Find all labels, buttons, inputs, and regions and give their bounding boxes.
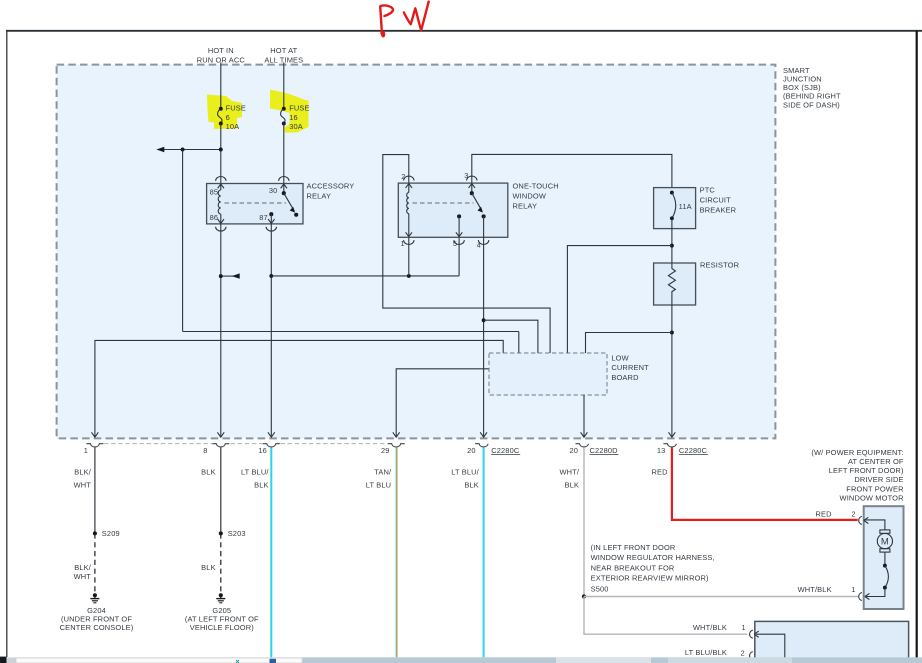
- SJB label: [783, 66, 841, 109]
- accessory relay pin 85 bump: [216, 176, 226, 180]
- wire accessory relay pin 86 down to exit 8: [220, 224, 222, 437]
- wire from pin 4 junction right to LCB stub c: [484, 320, 538, 353]
- wire exit 20 cyan LT BLU/BLK down off page: [483, 447, 485, 657]
- svg-text:WHT/BLK: WHT/BLK: [798, 585, 832, 594]
- wire from x183 right to low current board stub b: [183, 331, 519, 333]
- bump pin 16: [263, 444, 280, 447]
- exit arrow pin 29: [393, 432, 400, 437]
- wire from HOT IN RUN OR ACC to fuse 6: [220, 63, 222, 109]
- svg-text:10A: 10A: [226, 122, 240, 131]
- wire color label WHT/BLK at exit 20 C2280D: [559, 468, 579, 490]
- bump pin 29: [388, 444, 405, 447]
- harness location note and splice S500 label: [591, 543, 715, 594]
- wire from fuse 6 to accessory relay pin 85: [220, 124, 222, 184]
- exit arrow pin 16: [268, 432, 275, 437]
- svg-text:S203: S203: [228, 529, 246, 538]
- accessory relay pin 87 bump: [266, 227, 276, 231]
- svg-text:86: 86: [210, 213, 219, 222]
- wire color label LT BLU/BLK at exit 20 C2280C: [451, 468, 479, 490]
- svg-text:FUSE: FUSE: [226, 104, 246, 113]
- one-touch relay pin 5 contact: [456, 214, 462, 237]
- driver side front power window motor caption: [811, 448, 904, 503]
- wire stub with left arrow at node below fuse 6: [156, 147, 182, 152]
- wire color label TAN/LT BLU at exit 29: [366, 468, 392, 490]
- accessory relay pin 86 bump: [216, 227, 226, 231]
- wire door module pin 1 internal: [756, 634, 785, 660]
- one-touch relay pin 1 bump: [404, 240, 414, 244]
- page frame top border: [6, 30, 922, 32]
- svg-text:LT BLU/: LT BLU/: [451, 468, 479, 477]
- motor M symbol: [877, 530, 892, 552]
- fuse F6 10A: [218, 104, 246, 132]
- wire exit 1 down to splice S209: [94, 447, 96, 533]
- wire one-touch pin 3 up and right to PTC circuit breaker: [472, 154, 672, 192]
- svg-text:C2280C: C2280C: [491, 446, 520, 455]
- svg-text:S500: S500: [591, 585, 609, 594]
- junction dot below PTC at y245.6: [670, 244, 674, 248]
- taskbar strip at bottom: [0, 657, 922, 663]
- accessory relay switch blade: [284, 193, 294, 211]
- svg-text:BREAKER: BREAKER: [700, 205, 737, 214]
- svg-text:NEAR BREAKOUT FOR: NEAR BREAKOUT FOR: [591, 563, 675, 572]
- door module pin 2 connector arc: [750, 652, 753, 660]
- svg-text:2: 2: [401, 172, 405, 181]
- one-touch relay switch common pin 3: [469, 183, 475, 193]
- accessory relay pin 30 bump: [279, 176, 289, 180]
- door module pin 1 connector arrow: [754, 631, 759, 637]
- one-touch relay switch contact dot to pin 4: [482, 214, 486, 218]
- exit arrow pin 20 C2280C: [480, 432, 487, 437]
- svg-text:RELAY: RELAY: [513, 201, 538, 210]
- motor internal circuit breaker: [883, 564, 888, 590]
- svg-text:13: 13: [657, 446, 666, 455]
- low current board: [489, 353, 649, 395]
- one-touch relay pin 5 bump: [454, 240, 464, 244]
- svg-text:BOARD: BOARD: [611, 373, 639, 382]
- accessory relay switch common pin 30: [281, 184, 287, 194]
- page frame left border: [6, 31, 8, 657]
- junction dot on pin 4 wire at y320: [482, 318, 486, 322]
- splice S209: [93, 529, 120, 538]
- door module pin 1 connector arc: [750, 630, 753, 638]
- wire motor pin 2 to motor M: [865, 520, 885, 530]
- svg-text:SIDE OF DASH): SIDE OF DASH): [783, 100, 840, 109]
- junction dot at branch x183: [181, 148, 185, 152]
- svg-text:8: 8: [203, 446, 207, 455]
- wire contact dot down to pin 4: [483, 216, 485, 237]
- svg-text:RELAY: RELAY: [307, 192, 332, 201]
- svg-text:ACCESSORY: ACCESSORY: [307, 182, 355, 191]
- svg-text:CURRENT: CURRENT: [611, 363, 649, 372]
- door module box (bottom right): [755, 621, 909, 663]
- svg-text:BLK/: BLK/: [74, 468, 92, 477]
- svg-text:CENTER CONSOLE): CENTER CONSOLE): [60, 623, 134, 632]
- one-touch relay pin 2 bump: [404, 176, 414, 180]
- dashed wire S209 to ground G204: [94, 533, 96, 593]
- accessory relay coil: [218, 184, 224, 224]
- svg-text:WINDOW: WINDOW: [513, 192, 547, 201]
- bump pin 13 C2280C: [663, 444, 676, 447]
- wire one-touch pin 1 down to junction: [408, 237, 410, 276]
- node HOT IN RUN OR ACC: [197, 46, 246, 65]
- one-touch relay pin 4 bump: [478, 240, 488, 244]
- svg-text:FUSE: FUSE: [289, 104, 309, 113]
- svg-text:29: 29: [381, 446, 390, 455]
- svg-text:ONE-TOUCH: ONE-TOUCH: [513, 182, 559, 191]
- svg-text:BLK/: BLK/: [74, 563, 92, 572]
- svg-text:M: M: [881, 537, 889, 548]
- svg-text:1: 1: [851, 585, 855, 594]
- svg-text:20: 20: [570, 446, 579, 455]
- motor pin 2 connector arc: [859, 516, 862, 524]
- svg-text:EXTERIOR REARVIEW MIRROR): EXTERIOR REARVIEW MIRROR): [591, 574, 709, 583]
- svg-text:RED: RED: [816, 509, 833, 518]
- svg-text:16: 16: [289, 113, 298, 122]
- svg-text:CIRCUIT: CIRCUIT: [700, 196, 732, 205]
- svg-text:WHT: WHT: [74, 572, 92, 581]
- wire from fuse 16 to accessory relay pin 30: [283, 124, 285, 184]
- wire color label BLK/WHT above G204: [74, 563, 92, 581]
- svg-text:BLK: BLK: [201, 563, 216, 572]
- node HOT AT ALL TIMES: [264, 46, 303, 65]
- svg-text:DRIVER SIDE: DRIVER SIDE: [854, 475, 903, 484]
- window motor box: [864, 506, 904, 609]
- bump pin 8: [212, 444, 229, 447]
- svg-text:WHT/: WHT/: [559, 468, 579, 477]
- exit arrow pin 13 C2280C: [669, 432, 676, 437]
- junction dot on pin 87 wire at y276: [269, 274, 273, 278]
- exit arrow pin 8: [217, 432, 224, 437]
- svg-text:2: 2: [851, 509, 855, 518]
- accessory relay switch open contact dot: [294, 213, 298, 217]
- wire from resistor junction left and down to LCB stub f: [586, 333, 672, 354]
- accessory relay internal dashed link: [225, 202, 287, 204]
- ground G204: [60, 593, 134, 632]
- junction dot on pin 86 wire at y276: [219, 274, 223, 278]
- svg-text:1: 1: [741, 623, 745, 632]
- connector name C2280D at exit 20: [590, 446, 619, 455]
- wire from HOT AT ALL TIMES to fuse 16: [283, 63, 285, 109]
- connector bumps at SJB exits: [86, 444, 676, 447]
- svg-text:11A: 11A: [679, 202, 692, 211]
- wire PTC breaker down to resistor: [671, 218, 673, 263]
- exit arrow pin 20 C2280D: [581, 432, 588, 437]
- svg-text:1: 1: [84, 446, 88, 455]
- wire one-touch pin 4 down to exit 20 C2280C: [483, 237, 485, 437]
- highlighter mark over fuse 16: [270, 90, 309, 133]
- svg-text:WHT: WHT: [74, 480, 92, 489]
- svg-text:2: 2: [740, 649, 744, 658]
- svg-text:BLK: BLK: [464, 480, 479, 489]
- svg-text:TAN/: TAN/: [374, 468, 392, 477]
- wire exit 29 striped TAN/LT BLU down off page: [396, 447, 397, 657]
- wire exit 13 red RED down then right to window motor pin 2: [672, 447, 858, 520]
- junction dot below resistor at y332.5: [670, 331, 674, 335]
- bump pin 1: [86, 444, 103, 447]
- wire color label BLK/WHT at exit 1: [74, 468, 92, 490]
- svg-text:(IN LEFT FRONT DOOR: (IN LEFT FRONT DOOR: [591, 543, 676, 552]
- svg-text:6: 6: [226, 113, 230, 122]
- smart junction box (SJB) region: [57, 65, 776, 439]
- exit arrow pin 1: [92, 432, 99, 437]
- one-touch relay pin 3 bump: [467, 176, 477, 180]
- connector name C2280C at exit 13: [679, 446, 708, 455]
- accessory relay box: [207, 182, 355, 224]
- junction dot below one-touch pin 1: [407, 274, 411, 278]
- svg-text:HOT AT: HOT AT: [270, 46, 297, 55]
- bump pin 20 C2280D: [576, 444, 589, 447]
- wire S500 down then right to door module pin 1: [584, 597, 747, 635]
- splice S500: [582, 594, 586, 598]
- wire S500 right to window motor pin 1: [584, 596, 858, 598]
- svg-text:C2280D: C2280D: [590, 446, 619, 455]
- svg-text:AT CENTER OF: AT CENTER OF: [848, 457, 904, 466]
- splice S203: [219, 529, 246, 538]
- wire exit 20 C2280D gray WHT/BLK down to splice S500: [583, 447, 585, 596]
- wire from PTC junction left and down to LCB stub e: [567, 246, 672, 353]
- handwritten red annotation "P W": [380, 2, 429, 37]
- svg-text:RESISTOR: RESISTOR: [700, 260, 740, 269]
- wire motor M down to internal breaker: [884, 552, 886, 566]
- wire from pin 87 junction to one-touch relay pins 1 and 5: [271, 275, 459, 277]
- svg-text:C2280C: C2280C: [679, 446, 708, 455]
- PTC circuit breaker: [654, 186, 737, 229]
- wire from junction below fuse 6 left to branch: [183, 149, 221, 151]
- svg-text:RED: RED: [651, 468, 668, 477]
- svg-text:LT BLU/: LT BLU/: [241, 468, 269, 477]
- wire resistor down to exit 13 C2280C: [671, 305, 673, 437]
- wire from LCB stub a up and left to exit 1: [95, 340, 503, 437]
- svg-text:3: 3: [464, 171, 468, 180]
- motor pin 2 connector arrow: [864, 517, 869, 523]
- svg-text:(W/ POWER EQUIPMENT:: (W/ POWER EQUIPMENT:: [811, 448, 903, 457]
- junction dot on fuse 6 wire: [219, 148, 223, 152]
- svg-text:BLK: BLK: [565, 480, 580, 489]
- wire exit 8 down to splice S203: [220, 447, 222, 533]
- motor pin 1 connector arrow: [865, 593, 870, 599]
- svg-text:LEFT FRONT DOOR): LEFT FRONT DOOR): [829, 466, 904, 475]
- wire accessory relay pin 87 down to exit 16: [270, 224, 272, 437]
- svg-text:30A: 30A: [289, 122, 303, 131]
- ground G205: [185, 593, 259, 632]
- dashed wire S203 to ground G205: [220, 533, 222, 593]
- one-touch window relay box: [398, 182, 558, 238]
- svg-text:FRONT POWER: FRONT POWER: [846, 484, 904, 493]
- svg-text:WINDOW REGULATOR HARNESS,: WINDOW REGULATOR HARNESS,: [591, 553, 715, 562]
- bump pin 20 C2280C: [475, 444, 488, 447]
- svg-text:4: 4: [477, 240, 481, 249]
- svg-text:30: 30: [269, 186, 278, 195]
- one-touch relay coil: [406, 183, 412, 237]
- svg-text:WINDOW MOTOR: WINDOW MOTOR: [840, 493, 905, 502]
- svg-text:16: 16: [258, 446, 267, 455]
- svg-text:PTC: PTC: [700, 186, 716, 195]
- one-touch relay switch blade: [472, 193, 482, 211]
- svg-text:LT BLU: LT BLU: [366, 480, 391, 489]
- wire down from branch x183: [182, 150, 184, 332]
- wire LCB stub b down: [518, 332, 520, 354]
- wire one-touch pin 5 down to junction: [458, 237, 460, 276]
- one-touch relay internal dashed link: [413, 202, 474, 204]
- svg-text:85: 85: [210, 188, 219, 197]
- svg-text:BLK: BLK: [201, 468, 216, 477]
- wire from exit 29 up and right to LCB left edge: [396, 369, 489, 437]
- accessory relay pin 87 contact: [268, 212, 274, 224]
- svg-text:BLK: BLK: [254, 480, 269, 489]
- exit arrows at SJB bottom border: [92, 432, 676, 437]
- svg-text:S209: S209: [102, 529, 120, 538]
- wire stub with left arrow at junction y276: [222, 273, 240, 278]
- connector face dashed line at SJB bottom: [104, 443, 387, 445]
- resistor: [654, 260, 740, 305]
- svg-text:HOT IN: HOT IN: [208, 46, 234, 55]
- svg-text:VEHICLE FLOOR): VEHICLE FLOOR): [190, 623, 254, 632]
- svg-text:1: 1: [401, 239, 405, 248]
- svg-text:LOW: LOW: [611, 353, 628, 362]
- highlighter mark over fuse 6: [207, 95, 242, 130]
- fuse F16 30A: [281, 104, 310, 132]
- motor pin 1 connector arc: [859, 593, 862, 601]
- connector name C2280C at exit 20: [491, 446, 520, 455]
- wire color label LT BLU/BLK at exit 16: [241, 468, 269, 490]
- svg-text:5: 5: [453, 239, 457, 248]
- wire LCB bottom down to exit 20 C2280D: [583, 395, 585, 437]
- svg-text:LT BLU/BLK: LT BLU/BLK: [685, 648, 727, 657]
- wire internal breaker to motor pin 1: [866, 588, 885, 597]
- svg-text:20: 20: [467, 446, 476, 455]
- svg-text:WHT/BLK: WHT/BLK: [693, 623, 727, 632]
- wire exit 16 cyan LT BLU/BLK down off page: [270, 447, 272, 657]
- page frame right border: [916, 31, 918, 658]
- wire one-touch pin 2 loop: up, left, down, right to LCB stub d: [383, 155, 550, 353]
- svg-text:87: 87: [259, 213, 268, 222]
